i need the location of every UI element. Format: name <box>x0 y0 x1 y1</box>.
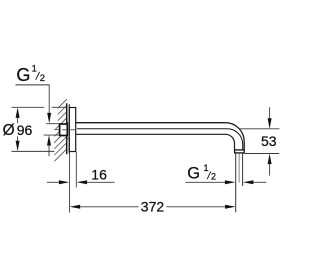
tube middle contour <box>77 129 243 150</box>
svg-text:G: G <box>16 65 30 85</box>
outlet nipple left line / 372 extension <box>235 153 237 212</box>
dia96 top extension line <box>12 106 45 108</box>
tube bottom contour <box>76 134 235 149</box>
leader arrowhead down <box>47 113 51 124</box>
leader underline G1/2 top <box>16 84 50 86</box>
16 right arrow <box>77 180 88 184</box>
16 extension line left (flange back) <box>69 152 71 213</box>
label G1/2 bottom <box>187 163 216 183</box>
leader vertical G1/2 top <box>48 85 50 114</box>
dia96 bottom arrowhead down <box>16 141 20 152</box>
372 dimension line <box>80 206 138 208</box>
svg-text:2: 2 <box>40 73 45 84</box>
connector up arrowhead <box>47 135 51 146</box>
53 bottom arrow (up) <box>268 154 272 165</box>
connector arrow stem <box>48 145 50 156</box>
svg-text:53: 53 <box>261 133 277 149</box>
label G1/2 top <box>16 64 45 85</box>
svg-text:G: G <box>187 165 200 183</box>
53 top arrow (down) <box>269 107 271 119</box>
G1/2 threaded connector <box>60 124 68 136</box>
dia96 top arrowhead up <box>16 107 20 118</box>
wall hatch smudge bottom <box>66 137 70 141</box>
svg-text:2: 2 <box>211 172 216 182</box>
connector bottom extension line <box>44 134 60 136</box>
53 bottom extension line <box>245 153 280 155</box>
372 right arrow <box>225 205 236 209</box>
wall hatching <box>54 99 67 161</box>
G1/2 bottom left arrow <box>186 181 226 183</box>
svg-text:1: 1 <box>204 163 209 173</box>
connector top extension line <box>46 123 59 125</box>
dia96 bottom extension line <box>12 150 55 152</box>
16 extension line right (flange front) <box>75 152 77 188</box>
centerline dashes through connector/flange <box>54 129 75 131</box>
16 left arrow <box>47 181 59 183</box>
svg-text:372: 372 <box>141 198 165 214</box>
svg-text:1: 1 <box>32 64 37 75</box>
flange back edge line <box>68 104 70 153</box>
53 top extension line <box>239 128 279 130</box>
372 left arrow <box>70 205 81 209</box>
flange escutcheon plate <box>69 108 75 152</box>
outlet centerline <box>238 153 240 182</box>
shower arm tube: top contour with bend <box>76 123 244 150</box>
wall hatch smudge top <box>66 121 70 125</box>
svg-text:16: 16 <box>91 167 107 183</box>
outlet end band (nut) <box>235 150 245 153</box>
G1/2 bottom right arrow <box>243 180 254 184</box>
outlet nipple right line <box>242 153 244 186</box>
svg-text:Ø: Ø <box>3 122 15 139</box>
wall surface line <box>66 103 68 154</box>
svg-text:96: 96 <box>17 122 33 138</box>
